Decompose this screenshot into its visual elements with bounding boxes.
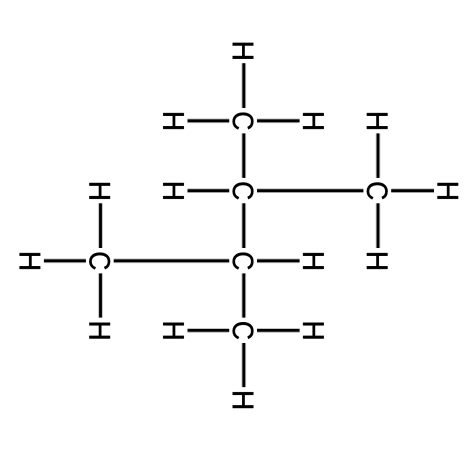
bond C5-C3 [114,259,230,262]
hydrogen atom H4 [163,183,184,199]
soft-edge halo underlayer (duplicates all bonds and atoms in light gray) [20,43,459,408]
bond H12-C4 [188,329,230,332]
hydrogen atom H10 [89,323,110,339]
hydrogen atom H7 [367,253,388,269]
bond C5-H10 [99,273,102,317]
bond C6-H6 [391,189,434,192]
bond C6-H7 [377,203,380,248]
hydrogen atom H2 [163,113,184,129]
bond C1-H3 [257,119,300,122]
bond H1-C1 [242,63,245,108]
hydrogen atom H14 [233,392,254,408]
carbon atom C1 [233,113,254,130]
bond C3-H11 [257,259,300,262]
bond C3-C4 [242,273,245,317]
bond C2-C6 [257,189,363,192]
carbon atom C2 [233,183,254,200]
hydrogen atom H9 [20,253,41,269]
hydrogen atom H13 [303,323,324,339]
bond H4-C2 [188,189,230,192]
bond H9-C5 [44,259,86,262]
bond H2-C1 [188,119,230,122]
hydrogen atom H12 [163,323,184,339]
bond C4-H13 [257,329,300,332]
bond H5-C6 [377,133,380,178]
carbon atom C4 [233,322,254,339]
carbon atom C5 [89,253,110,270]
carbon atom C6 [367,183,388,200]
hydrogen atom H6 [438,183,459,199]
hydrogen atom H8 [89,183,110,199]
bond H8-C5 [99,203,102,248]
bond C1-C2 [242,133,245,178]
bond C4-H14 [242,343,245,387]
carbon atom C3 [233,253,254,270]
hydrogen atom H11 [303,253,324,269]
hydrogen atom H3 [303,113,324,129]
hydrogen atom H5 [367,113,388,129]
bond C2-C3 [242,203,245,248]
main black layer: bonds and atom labels [20,43,459,408]
hydrogen atom H1 [233,43,254,59]
